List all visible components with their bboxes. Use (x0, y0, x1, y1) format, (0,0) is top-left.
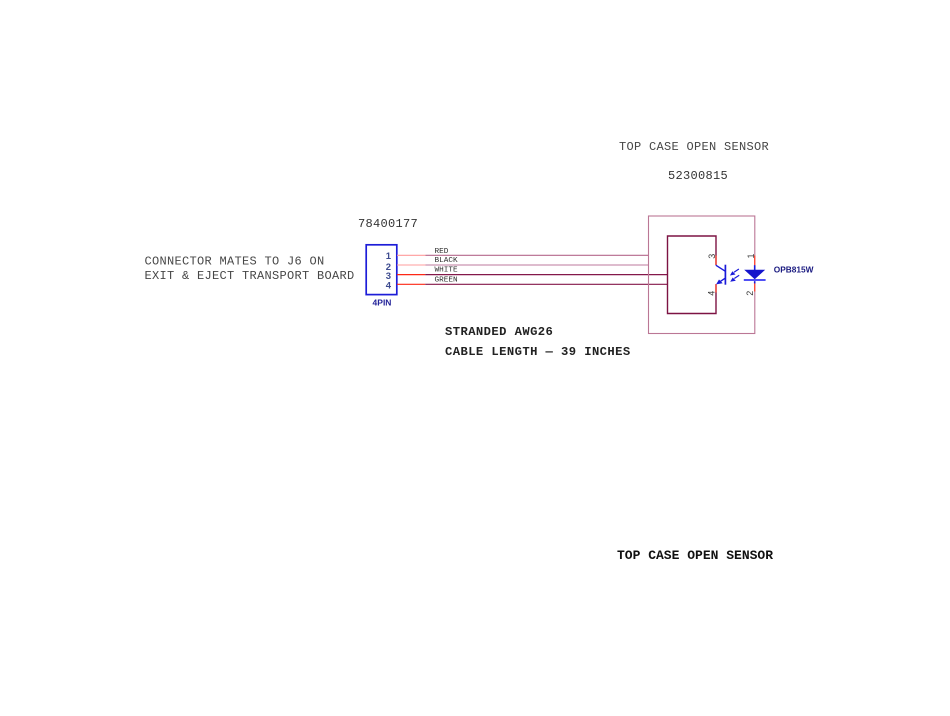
sensor pin 1 stub (754, 256, 756, 266)
pin 1 stub (397, 254, 426, 256)
svg-text:78400177: 78400177 (358, 217, 418, 231)
LED D1 anode lead (754, 265, 756, 270)
svg-text:EXIT & EJECT TRANSPORT BOARD: EXIT & EJECT TRANSPORT BOARD (145, 269, 355, 283)
LED D1 triangle (744, 270, 765, 280)
phototransistor emitter arrowhead (716, 280, 723, 285)
svg-text:4PIN: 4PIN (373, 297, 392, 307)
phototransistor emitter (721, 278, 726, 281)
light arrow upper (734, 269, 739, 272)
svg-text:TOP CASE OPEN SENSOR: TOP CASE OPEN SENSOR (619, 140, 769, 154)
svg-text:4: 4 (706, 291, 716, 296)
sensor pin 3 stub (715, 256, 717, 265)
pin 4 stub (397, 283, 425, 285)
pin 3 stub (397, 274, 425, 276)
svg-text:2: 2 (745, 291, 755, 296)
svg-text:TOP CASE OPEN SENSOR: TOP CASE OPEN SENSOR (617, 548, 773, 563)
pin 2 stub (397, 264, 426, 266)
opto sensor U1 body rectangle (668, 236, 717, 314)
LED D1 cathode lead (754, 281, 756, 283)
svg-text:52300815: 52300815 (668, 169, 728, 183)
light arrow lower (734, 275, 739, 278)
sensor pin 4 stub (715, 284, 717, 292)
svg-text:WHITE: WHITE (435, 267, 458, 275)
svg-text:CABLE LENGTH — 39 INCHES: CABLE LENGTH — 39 INCHES (445, 345, 631, 359)
svg-text:BLACK: BLACK (435, 257, 458, 265)
sensor outer wire loop rectangle (649, 216, 755, 334)
wire GREEN net (425, 283, 667, 285)
connector J1 4PIN body (366, 245, 397, 295)
LED D1 cathode bar (744, 279, 766, 281)
sensor pin 2 stub (754, 283, 756, 292)
wire BLACK net (426, 264, 650, 266)
svg-text:1: 1 (386, 251, 392, 262)
wire RED net (426, 254, 650, 256)
svg-text:CONNECTOR MATES TO J6 ON: CONNECTOR MATES TO J6 ON (145, 254, 325, 268)
wire WHITE net (425, 274, 667, 276)
svg-text:1: 1 (746, 253, 756, 258)
svg-text:OPB815W: OPB815W (774, 265, 814, 275)
svg-text:STRANDED AWG26: STRANDED AWG26 (445, 325, 553, 339)
phototransistor Q1 base line (724, 265, 726, 285)
phototransistor collector (716, 265, 726, 271)
svg-text:GREEN: GREEN (435, 277, 458, 285)
svg-text:3: 3 (707, 254, 717, 259)
svg-text:4: 4 (386, 281, 392, 292)
svg-text:RED: RED (435, 248, 449, 256)
